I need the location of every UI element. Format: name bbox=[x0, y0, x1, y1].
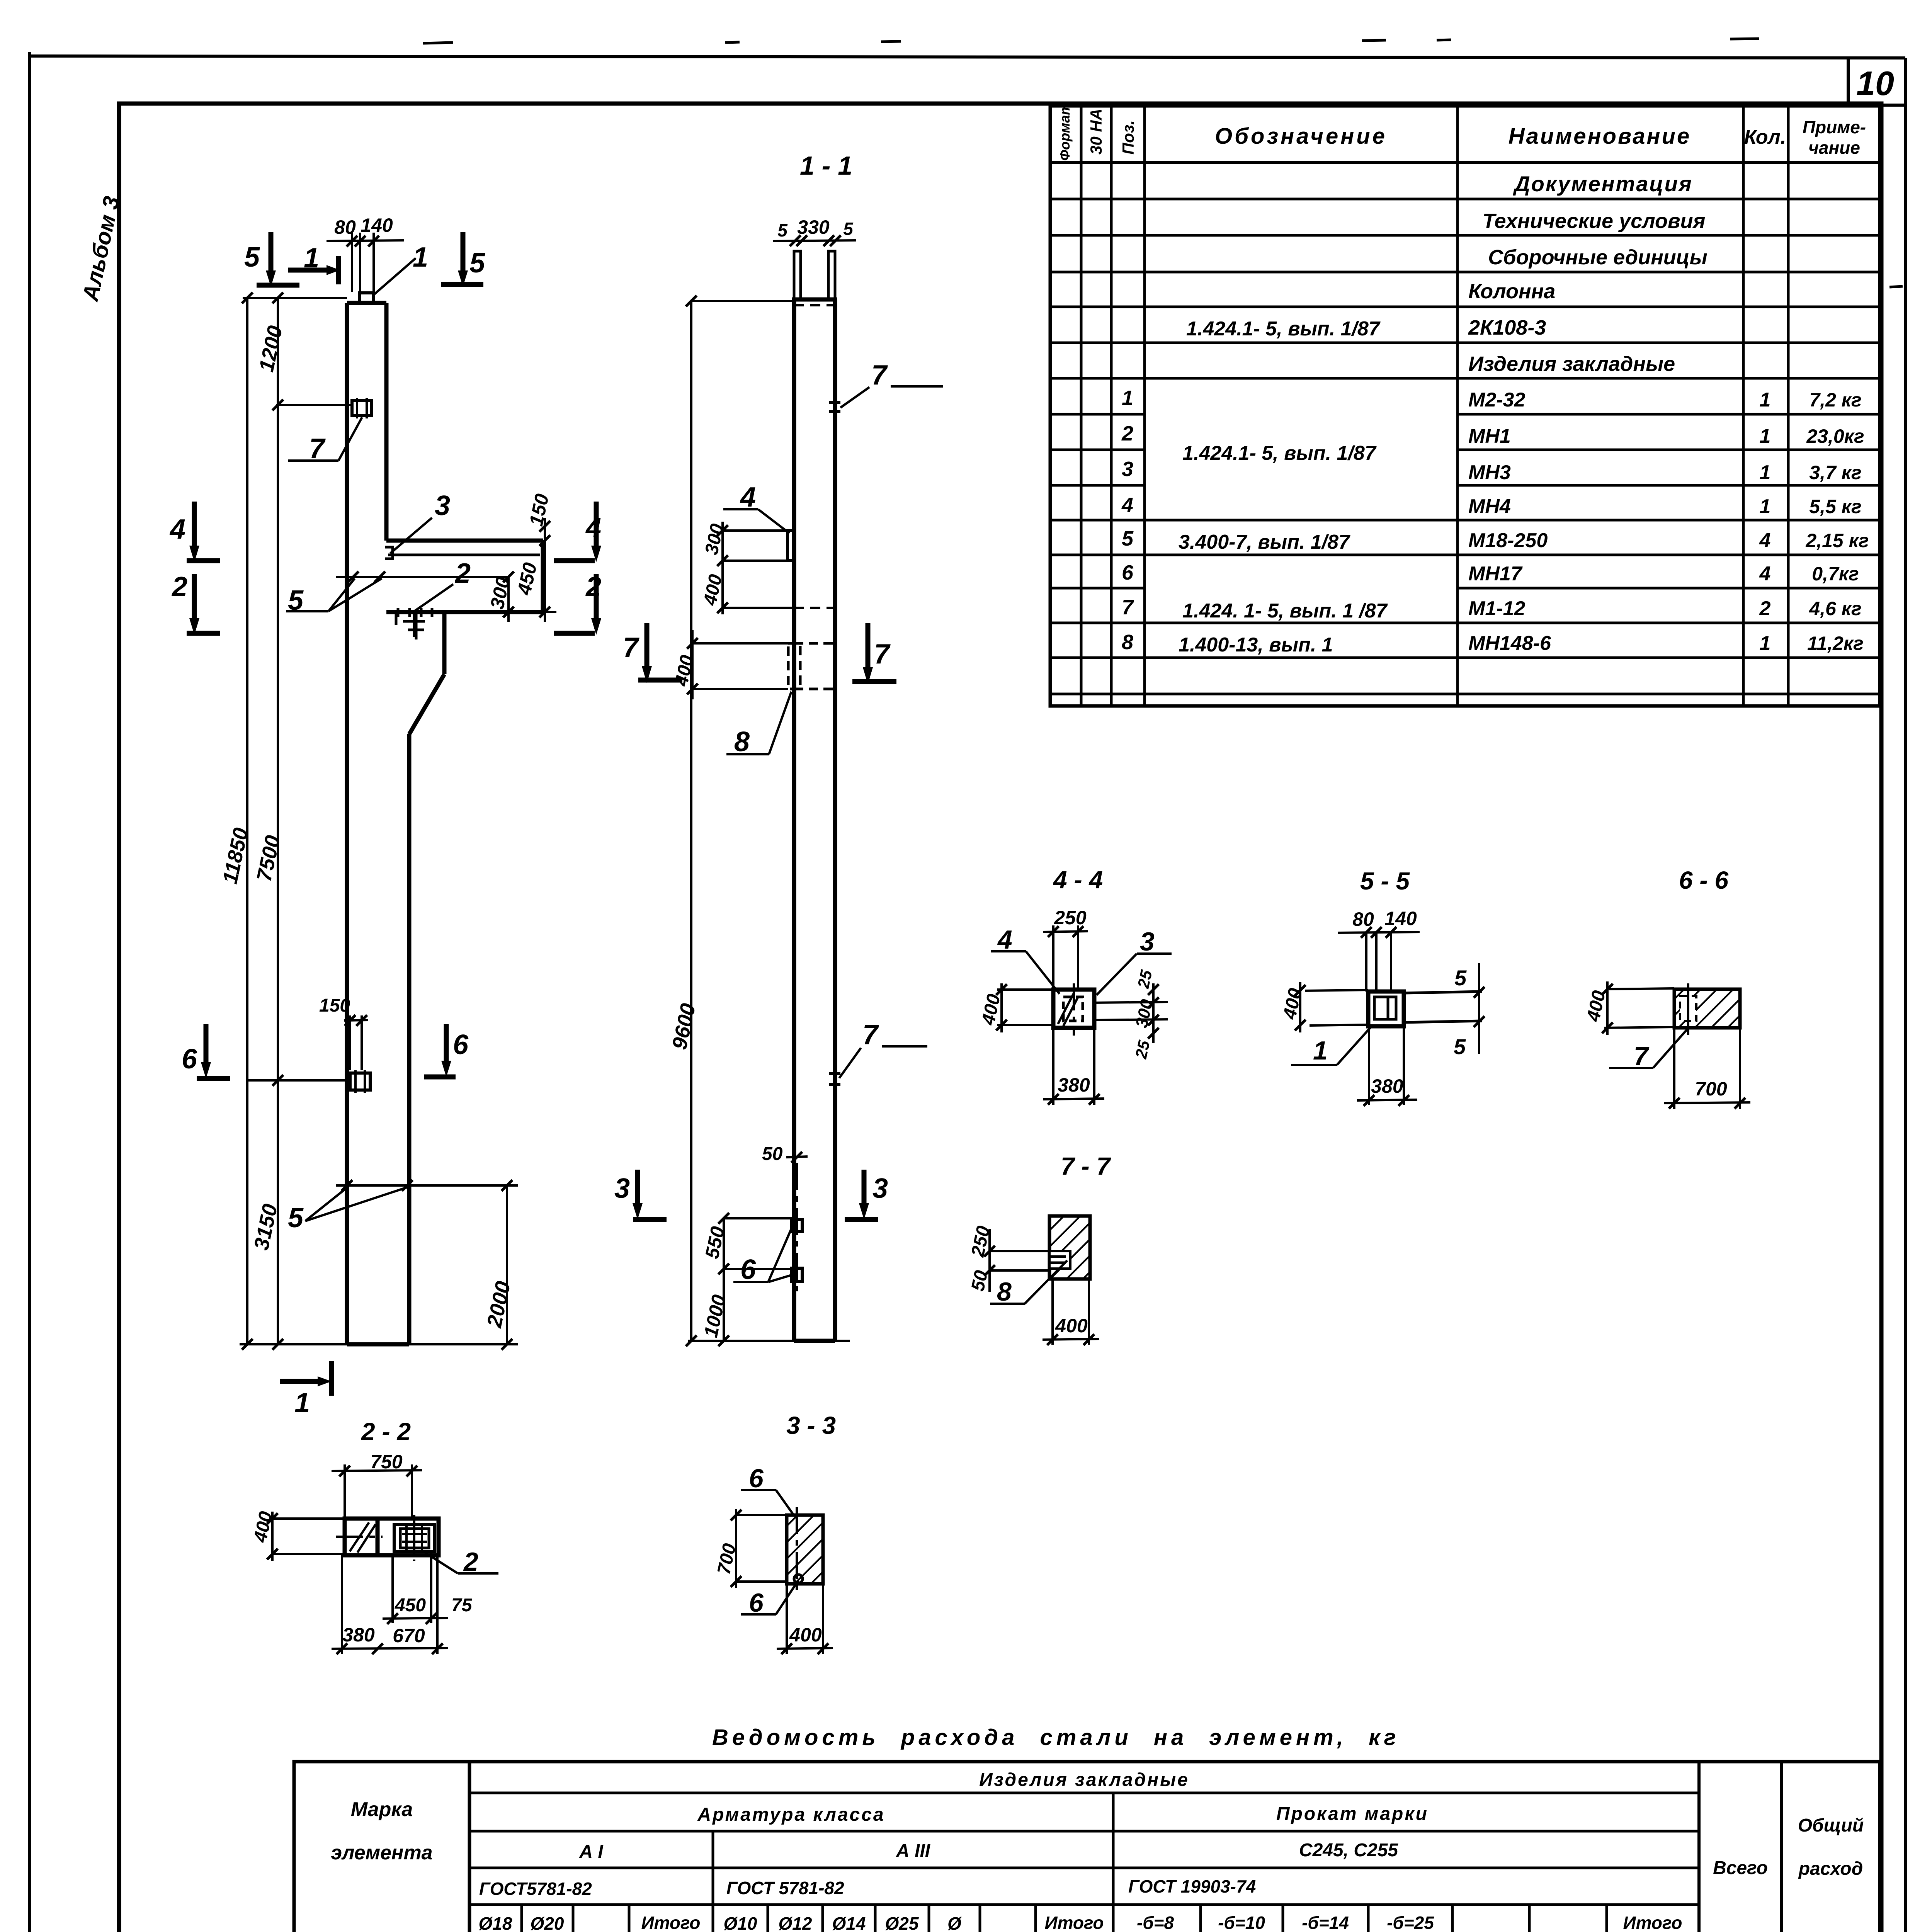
dim line 11850 bbox=[246, 298, 248, 1344]
svg-text:6 - 6: 6 - 6 bbox=[1679, 866, 1728, 894]
svg-text:4 - 4: 4 - 4 bbox=[1053, 866, 1103, 894]
svg-text:4: 4 bbox=[1121, 493, 1133, 517]
embed poz4 (МН4) bbox=[787, 531, 794, 561]
section 4-4 body bbox=[1053, 990, 1094, 1028]
svg-text:М2-32: М2-32 bbox=[1468, 389, 1525, 411]
svg-text:8: 8 bbox=[734, 726, 750, 757]
dims 450 75 under 2-2 bbox=[391, 1555, 394, 1623]
svg-text:1.400-13, вып. 1: 1.400-13, вып. 1 bbox=[1179, 634, 1333, 656]
svg-text:3: 3 bbox=[872, 1173, 888, 1204]
svg-text:Итого: Итого bbox=[1623, 1913, 1682, 1932]
svg-text:140: 140 bbox=[1384, 908, 1417, 929]
svg-text:7: 7 bbox=[874, 639, 891, 670]
svg-text:1: 1 bbox=[1122, 386, 1133, 410]
svg-text:400: 400 bbox=[789, 1624, 822, 1646]
svg-text:2: 2 bbox=[171, 571, 187, 602]
svg-text:6: 6 bbox=[749, 1464, 764, 1493]
svg-text:МН4: МН4 bbox=[1468, 495, 1511, 518]
svg-text:Итого: Итого bbox=[1045, 1913, 1104, 1932]
svg-text:3: 3 bbox=[614, 1173, 630, 1204]
svg-text:-б=10: -б=10 bbox=[1218, 1913, 1265, 1932]
section 2-2 body bbox=[345, 1519, 439, 1555]
svg-text:Ø10: Ø10 bbox=[724, 1913, 757, 1932]
embed item 7 lower on left view bbox=[350, 1073, 370, 1090]
svg-text:МН1: МН1 bbox=[1468, 425, 1511, 447]
svg-text:2: 2 bbox=[585, 571, 601, 602]
column outline left view bbox=[347, 303, 543, 1344]
svg-text:1: 1 bbox=[1760, 461, 1771, 484]
scan artifact dashes along top bbox=[423, 39, 1903, 287]
svg-text:5: 5 bbox=[469, 248, 485, 279]
svg-text:расход: расход bbox=[1798, 1859, 1863, 1879]
embed poz7 lower tick bbox=[829, 1072, 840, 1075]
svg-text:-б=14: -б=14 bbox=[1302, 1913, 1349, 1932]
svg-text:ГОСТ5781-82: ГОСТ5781-82 bbox=[479, 1879, 592, 1899]
sheet outer border bbox=[28, 52, 31, 1932]
svg-text:11,2кг: 11,2кг bbox=[1807, 633, 1864, 654]
svg-text:5: 5 bbox=[843, 219, 854, 239]
svg-text:Ведомость расхода стали: Ведомость расхода стали на элемент, кг bbox=[712, 1725, 1400, 1750]
svg-text:Приме-: Приме- bbox=[1803, 117, 1866, 137]
dim 400 left of 6-6 bbox=[1609, 988, 1674, 989]
dim 400 under 3-3 bbox=[786, 1584, 788, 1654]
svg-text:М18-250: М18-250 bbox=[1468, 529, 1548, 552]
svg-text:4: 4 bbox=[1759, 529, 1771, 552]
svg-text:7: 7 bbox=[871, 360, 888, 391]
svg-text:0,7кг: 0,7кг bbox=[1812, 563, 1859, 585]
svg-text:150: 150 bbox=[319, 995, 350, 1016]
svg-text:6: 6 bbox=[182, 1044, 197, 1075]
svg-text:75: 75 bbox=[451, 1595, 473, 1616]
bolt circle bbox=[794, 1575, 803, 1583]
svg-text:5: 5 bbox=[1122, 527, 1134, 550]
embed poz7 top tick bbox=[829, 401, 840, 404]
svg-text:Наименование: Наименование bbox=[1509, 124, 1691, 149]
svg-text:3: 3 bbox=[435, 490, 450, 521]
svg-text:5: 5 bbox=[288, 1202, 304, 1233]
extension at 7500 level bbox=[247, 1079, 346, 1082]
svg-text:Ø12: Ø12 bbox=[779, 1913, 812, 1932]
svg-text:Ø18: Ø18 bbox=[479, 1913, 512, 1932]
svg-text:Итого: Итого bbox=[641, 1913, 701, 1932]
svg-text:1: 1 bbox=[1760, 632, 1771, 655]
dim 400 under 7-7 bbox=[1051, 1279, 1054, 1345]
bolt level line on corbel bbox=[336, 576, 507, 578]
plate mark poz3 at corbel top bbox=[385, 547, 393, 559]
svg-text:5: 5 bbox=[777, 220, 788, 240]
svg-text:8: 8 bbox=[1122, 631, 1133, 654]
svg-text:380: 380 bbox=[342, 1624, 375, 1646]
svg-text:МН17: МН17 bbox=[1468, 563, 1523, 585]
svg-text:2: 2 bbox=[454, 558, 471, 589]
spec table grid bbox=[1050, 106, 1880, 706]
svg-text:7: 7 bbox=[862, 1019, 879, 1050]
dims 380 670 under 2-2 bbox=[341, 1555, 343, 1654]
svg-text:чание: чание bbox=[1808, 138, 1860, 158]
bottom extension right elevation bbox=[688, 1340, 850, 1342]
svg-text:3.400-7, вып. 1/87: 3.400-7, вып. 1/87 bbox=[1179, 531, 1350, 553]
side lines with 5 bbox=[1404, 992, 1482, 993]
svg-text:2 - 2: 2 - 2 bbox=[361, 1418, 411, 1446]
svg-text:Ø20: Ø20 bbox=[531, 1913, 564, 1932]
top extension line bbox=[243, 297, 347, 299]
top plate strips (M2-32 in section) bbox=[794, 251, 801, 299]
svg-text:Изделия закладные: Изделия закладные bbox=[1468, 352, 1675, 376]
svg-text:330: 330 bbox=[797, 216, 830, 238]
svg-text:6: 6 bbox=[749, 1588, 764, 1617]
svg-text:5 - 5: 5 - 5 bbox=[1360, 867, 1410, 895]
extension at embed7 level bbox=[276, 404, 352, 406]
svg-text:2: 2 bbox=[1121, 422, 1133, 445]
svg-text:1 - 1: 1 - 1 bbox=[800, 151, 852, 180]
dim 2000 right bottom bbox=[336, 1184, 518, 1187]
channel embed in 7-7 bbox=[1049, 1251, 1070, 1269]
svg-text:Изделия закладные: Изделия закладные bbox=[979, 1770, 1189, 1790]
svg-text:Всего: Всего bbox=[1713, 1858, 1768, 1878]
section 3-3 body bbox=[787, 1515, 823, 1584]
dim line 1200/7500/3150 bbox=[277, 298, 279, 1344]
svg-text:1: 1 bbox=[1760, 389, 1771, 411]
svg-text:3: 3 bbox=[1122, 457, 1133, 481]
corbel inner line bbox=[388, 554, 540, 556]
svg-text:7 - 7: 7 - 7 bbox=[1061, 1152, 1111, 1180]
plate guide lines bbox=[1366, 933, 1391, 992]
svg-text:4: 4 bbox=[169, 514, 185, 545]
svg-text:Колонна: Колонна bbox=[1468, 280, 1555, 303]
dim 380 under 4-4 bbox=[1052, 1028, 1054, 1105]
svg-text:1.424. 1- 5, вып. 1 /87: 1.424. 1- 5, вып. 1 /87 bbox=[1182, 600, 1388, 622]
svg-text:Документация: Документация bbox=[1513, 172, 1693, 196]
plate plan 5-5 bbox=[1368, 992, 1404, 1026]
svg-text:7: 7 bbox=[623, 632, 639, 663]
svg-text:4: 4 bbox=[997, 925, 1012, 954]
svg-text:30 НА: 30 НА bbox=[1087, 109, 1105, 155]
section 6-6 body bbox=[1674, 989, 1740, 1028]
svg-text:250: 250 bbox=[1054, 907, 1087, 929]
svg-text:3 - 3: 3 - 3 bbox=[786, 1412, 836, 1439]
dim 400 left of 2-2 bbox=[272, 1517, 345, 1520]
svg-text:1.424.1- 5, вып. 1/87: 1.424.1- 5, вып. 1/87 bbox=[1186, 318, 1381, 340]
top plate M2-32 side view bbox=[359, 293, 374, 303]
dim 400 left of 4-4 bbox=[997, 988, 1053, 991]
svg-text:2К108-3: 2К108-3 bbox=[1468, 316, 1546, 339]
svg-text:380: 380 bbox=[1058, 1074, 1090, 1096]
svg-text:-б=8: -б=8 bbox=[1137, 1913, 1174, 1932]
svg-text:Арматура класса: Арматура класса bbox=[697, 1804, 885, 1825]
embed poz8 dashed (МН148-6) bbox=[788, 643, 835, 689]
svg-text:МН148-6: МН148-6 bbox=[1468, 632, 1551, 655]
svg-text:1: 1 bbox=[1313, 1036, 1328, 1065]
svg-text:Ø25: Ø25 bbox=[885, 1913, 919, 1932]
svg-text:23,0кг: 23,0кг bbox=[1806, 425, 1864, 447]
embeds poz6 (МН17) bbox=[791, 1219, 802, 1231]
svg-text:Ø14: Ø14 bbox=[832, 1913, 866, 1932]
dims 300 400 near poz4 bbox=[721, 522, 724, 614]
svg-text:М1-12: М1-12 bbox=[1468, 597, 1525, 620]
svg-text:Прокат марки: Прокат марки bbox=[1276, 1804, 1429, 1824]
svg-text:Ø: Ø bbox=[947, 1913, 962, 1932]
dim 700 under 6-6 bbox=[1673, 1028, 1675, 1109]
svg-text:Марка: Марка bbox=[351, 1798, 413, 1821]
page number box bbox=[1847, 58, 1850, 105]
svg-text:380: 380 bbox=[1371, 1075, 1403, 1097]
embed item 7 upper on left view bbox=[352, 401, 372, 416]
svg-text:1: 1 bbox=[1760, 495, 1771, 518]
dim 9600 bbox=[690, 301, 692, 1341]
svg-text:2: 2 bbox=[463, 1547, 478, 1577]
bottom extension line bbox=[240, 1343, 518, 1345]
svg-text:450: 450 bbox=[395, 1595, 426, 1616]
svg-text:Обозначение: Обозначение bbox=[1215, 124, 1387, 149]
svg-text:Кол.: Кол. bbox=[1744, 126, 1786, 148]
svg-text:3,7 кг: 3,7 кг bbox=[1809, 462, 1861, 483]
svg-text:140: 140 bbox=[361, 214, 393, 236]
dim 700 left of 3-3 bbox=[736, 1514, 787, 1516]
svg-text:5: 5 bbox=[1454, 966, 1467, 990]
dims 25 300 25 right of 4-4 bbox=[1094, 1002, 1168, 1003]
svg-text:7,2 кг: 7,2 кг bbox=[1809, 389, 1861, 411]
svg-text:5: 5 bbox=[244, 242, 260, 273]
svg-text:Формат: Формат bbox=[1057, 103, 1073, 161]
svg-text:670: 670 bbox=[393, 1625, 425, 1646]
dim 400 left of 5-5 bbox=[1305, 990, 1368, 991]
bolts M18 under corbel bbox=[396, 612, 424, 639]
svg-text:Поз.: Поз. bbox=[1119, 120, 1137, 155]
svg-text:ГОСТ 19903-74: ГОСТ 19903-74 bbox=[1128, 1876, 1256, 1896]
svg-text:10: 10 bbox=[1856, 64, 1894, 102]
dims 550 1000 bbox=[723, 1218, 725, 1341]
corbel right dims 150 450 300 bbox=[544, 518, 546, 622]
svg-text:Сборочные единицы: Сборочные единицы bbox=[1488, 246, 1708, 269]
svg-text:5,5 кг: 5,5 кг bbox=[1809, 496, 1861, 517]
svg-text:1: 1 bbox=[1760, 425, 1771, 447]
svg-text:Технические условия: Технические условия bbox=[1483, 209, 1706, 233]
svg-text:1.424.1- 5, вып. 1/87: 1.424.1- 5, вып. 1/87 bbox=[1182, 442, 1377, 464]
plate МН1 in 2-2 bbox=[394, 1524, 435, 1551]
svg-text:4,6 кг: 4,6 кг bbox=[1809, 598, 1861, 619]
svg-text:МН3: МН3 bbox=[1468, 461, 1511, 484]
dim 380 under 5-5 bbox=[1368, 1026, 1370, 1105]
section 7-7 body bbox=[1049, 1216, 1090, 1279]
svg-text:8: 8 bbox=[997, 1277, 1012, 1306]
svg-text:50: 50 bbox=[762, 1144, 783, 1164]
svg-text:7: 7 bbox=[1634, 1041, 1650, 1071]
svg-text:7: 7 bbox=[1122, 596, 1134, 619]
left lines of 7-7 bbox=[990, 1250, 1049, 1252]
svg-text:Общий: Общий bbox=[1798, 1815, 1864, 1836]
svg-text:700: 700 bbox=[1695, 1078, 1727, 1100]
svg-text:6: 6 bbox=[1122, 561, 1134, 584]
svg-text:400: 400 bbox=[1055, 1315, 1088, 1337]
svg-text:С245, С255: С245, С255 bbox=[1299, 1840, 1398, 1861]
svg-text:ГОСТ 5781-82: ГОСТ 5781-82 bbox=[726, 1878, 844, 1898]
steel table grid bbox=[294, 1762, 1880, 1932]
svg-text:-б=25: -б=25 bbox=[1387, 1913, 1434, 1932]
svg-text:3: 3 bbox=[1140, 927, 1155, 956]
column outline right view bbox=[792, 299, 837, 1341]
embed 2 dashes under corbel bbox=[398, 608, 432, 637]
svg-text:2: 2 bbox=[1759, 597, 1771, 620]
svg-text:2,15 кг: 2,15 кг bbox=[1805, 530, 1869, 551]
section mark 1 (bottom) bbox=[329, 1361, 334, 1396]
level line at 1573 bbox=[723, 607, 794, 609]
svg-text:элемента: элемента bbox=[331, 1842, 432, 1864]
svg-text:А I: А I bbox=[579, 1842, 604, 1862]
svg-text:5: 5 bbox=[1454, 1034, 1466, 1059]
dim ticks left column bbox=[242, 293, 283, 1350]
svg-text:4: 4 bbox=[585, 512, 601, 543]
svg-text:А III: А III bbox=[896, 1841, 931, 1861]
svg-text:1: 1 bbox=[294, 1388, 310, 1418]
svg-text:4: 4 bbox=[1759, 563, 1771, 585]
svg-text:6: 6 bbox=[453, 1029, 469, 1060]
dim 400 at poz8 bbox=[691, 630, 694, 699]
